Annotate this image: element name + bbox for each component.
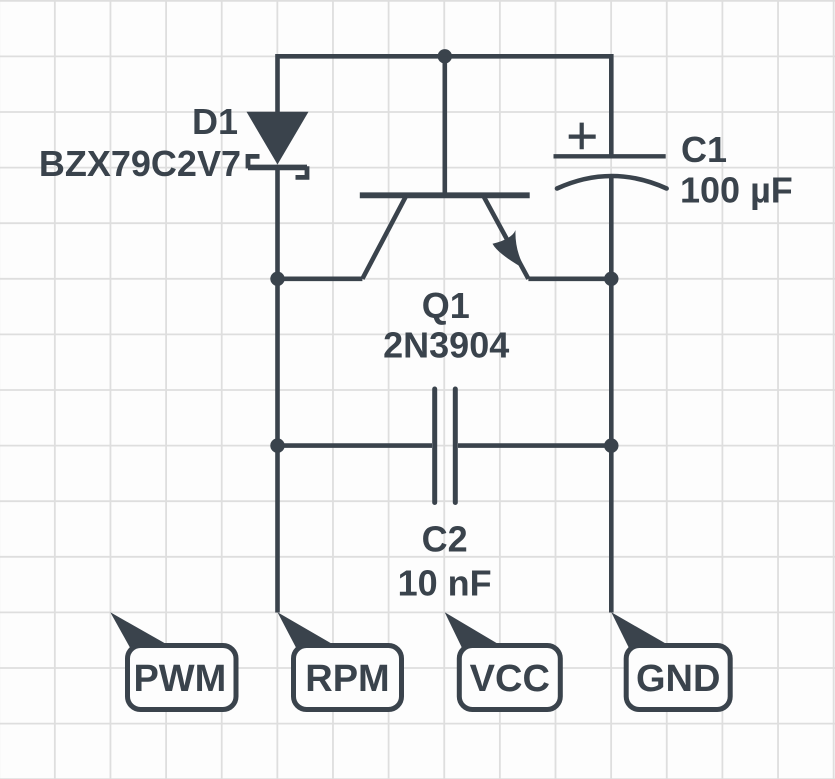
wire: top rail horizontal	[278, 54, 612, 59]
svg-text:100 µF: 100 µF	[680, 170, 793, 211]
wire: left rail upper segment	[275, 54, 280, 113]
svg-text:BZX79C2V7: BZX79C2V7	[39, 143, 241, 184]
terminal RPM	[278, 612, 402, 709]
wire: right rail upper segment	[609, 54, 614, 156]
diode D1 zener BZX79C2V7	[247, 112, 309, 178]
junction: top node	[438, 49, 452, 63]
junction: left rail C2 row	[270, 438, 284, 452]
wire: left rail to C2	[278, 443, 433, 448]
svg-text:C1: C1	[681, 129, 727, 170]
svg-text:Q1: Q1	[422, 285, 470, 326]
wire: C2 to right rail	[458, 443, 611, 448]
terminal GND	[611, 612, 730, 709]
wire: emitter to left rail	[278, 276, 363, 281]
svg-text:GND: GND	[636, 658, 720, 700]
value label 100 uF	[680, 170, 793, 211]
value label 10 nF	[398, 563, 492, 604]
value label BZX79C2V7	[39, 143, 241, 184]
label C1	[681, 129, 727, 170]
svg-text:C2: C2	[422, 519, 468, 560]
capacitor C2	[435, 389, 456, 503]
junction: right rail C2 row	[604, 438, 618, 452]
label Q1	[422, 285, 470, 326]
junction: left rail emitter row	[270, 272, 284, 286]
value label 2N3904	[383, 325, 509, 366]
svg-text:RPM: RPM	[305, 658, 389, 700]
label D1	[192, 101, 238, 142]
wire: left rail lower segment	[275, 167, 280, 612]
transistor Q1	[360, 56, 530, 278]
wire: right rail lower segment	[609, 176, 614, 613]
svg-text:PWM: PWM	[133, 658, 226, 700]
label C2	[422, 519, 468, 560]
wire: collector to right rail	[528, 276, 611, 281]
terminal PWM	[110, 612, 236, 709]
svg-text:2N3904: 2N3904	[383, 325, 509, 366]
svg-text:D1: D1	[192, 101, 238, 142]
junction: right rail collector row	[604, 272, 618, 286]
terminal VCC	[445, 612, 561, 709]
svg-text:VCC: VCC	[470, 658, 550, 700]
svg-text:10 nF: 10 nF	[398, 563, 492, 604]
capacitor C1 polarized	[554, 123, 667, 189]
